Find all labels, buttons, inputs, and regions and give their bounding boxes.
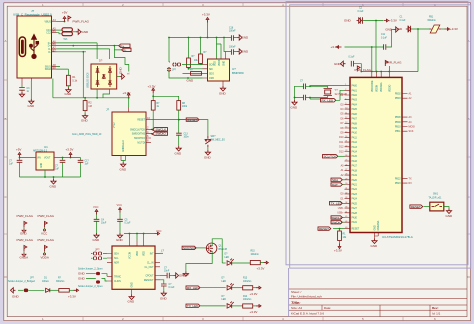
capacitor C8 1uF output 2 (80, 158, 82, 161)
svg-text:PA11: PA11 (352, 136, 358, 139)
label RX_LED (186, 286, 200, 289)
node (84, 97, 86, 99)
svg-text:B: B (5, 117, 7, 121)
svg-text:SCK/SCK: SCK/SCK (183, 246, 196, 250)
svg-text:25: 25 (345, 160, 347, 162)
svg-text:VCC: VCC (156, 229, 162, 233)
pin stubs left (203, 64, 224, 86)
svg-text:GND: GND (12, 295, 20, 299)
sensor U2 BMP280 (208, 59, 230, 81)
ground under C5 (117, 233, 122, 238)
svg-text:PA17: PA17 (352, 165, 358, 168)
svg-text:PA13: PA13 (352, 146, 358, 149)
svg-text:1uF: 1uF (85, 164, 90, 166)
svg-text:10: 10 (345, 108, 347, 110)
graphic rectangle (purple) around MCU section (286, 2, 468, 265)
svg-text:32: 32 (345, 193, 347, 195)
svg-text:PWR_FLAG: PWR_FLAG (38, 238, 55, 242)
svg-text:DAT: DAT (332, 183, 338, 187)
svg-text:2: 2 (345, 89, 346, 91)
wire USB GND pin down (30, 81, 32, 99)
ground flag left for C12 (341, 61, 346, 66)
node usb data (114, 45, 116, 47)
svg-text:Size: A4: Size: A4 (291, 306, 302, 310)
wire +3.3V branch to ESD rail (128, 97, 130, 99)
svg-text:D10: D10 (339, 136, 344, 139)
svg-text:U1: U1 (44, 145, 48, 149)
resistor R5 (188, 38, 190, 59)
wire VBUS (57, 21, 65, 23)
svg-text:R1: R1 (72, 75, 76, 79)
svg-text:GND: GND (50, 185, 58, 189)
svg-text:FB1: FB1 (429, 17, 434, 19)
wire VOUT rail (54, 157, 81, 159)
svg-text:SDA: SDA (114, 253, 119, 256)
svg-text:R15: R15 (251, 251, 256, 253)
svg-text:100ohm: 100ohm (243, 299, 251, 301)
svg-text:PWR_FLAG: PWR_FLAG (17, 214, 34, 218)
svg-text:SW?: SW? (211, 136, 217, 138)
svg-text:C13: C13 (184, 134, 189, 136)
ground under C4 (94, 233, 99, 238)
label SWDIO row29 (331, 221, 342, 224)
svg-text:CC2: CC2 (46, 33, 51, 35)
svg-text:600ohm: 600ohm (428, 20, 436, 22)
wire R1 to gnd (67, 86, 69, 88)
svg-text:LED: LED (222, 299, 227, 301)
svg-text:PA14: PA14 (352, 151, 358, 154)
pin numbers (147, 116, 150, 143)
svg-text:GND: GND (132, 282, 134, 287)
svg-text:R13: R13 (243, 278, 248, 280)
svg-text:PA06: PA06 (352, 113, 358, 116)
svg-text:PB11: PB11 (395, 131, 401, 133)
svg-text:PA16: PA16 (352, 160, 358, 163)
svg-text:PA07: PA07 (352, 118, 358, 121)
svg-text:100k: 100k (182, 106, 188, 108)
svg-text:TX: TX (409, 177, 412, 180)
svg-text:TX_LED: TX_LED (187, 304, 199, 308)
svg-text:VBUS: VBUS (45, 22, 52, 24)
svg-text:RESET: RESET (352, 229, 360, 231)
svg-text:TRINC: TRINC (114, 276, 121, 278)
ground under LDO (51, 179, 56, 184)
graphic rectangle (purple) inner offset (290, 5, 471, 268)
svg-text:D11: D11 (339, 141, 344, 144)
svg-text:SWDIO/TMS: SWDIO/TMS (132, 134, 146, 136)
svg-text:VCC: VCC (117, 203, 123, 207)
svg-text:GND: GND (187, 79, 195, 83)
ground right of array (117, 76, 120, 78)
ground crystal (292, 100, 297, 105)
power +3.3V right of C2 (384, 19, 389, 22)
mcu U3 body (350, 77, 402, 232)
svg-text:PA00: PA00 (352, 85, 358, 88)
ground under SW2 (205, 150, 210, 155)
svg-text:Solder-Jumper_2_Open: Solder-Jumper_2_Open (78, 285, 103, 288)
wire gnd rail (20, 170, 81, 179)
switch SW2 reset button (179, 120, 208, 136)
svg-text:GNDDetect: GNDDetect (122, 140, 125, 152)
svg-text:VDDANA: VDDANA (380, 82, 383, 92)
svg-text:31: 31 (345, 188, 347, 190)
svg-text:INT: INT (150, 253, 154, 255)
wire VDDCORE vertical (371, 47, 373, 72)
svg-text:RX_LED: RX_LED (322, 99, 335, 103)
svg-text:0.1uF: 0.1uF (381, 38, 387, 40)
svg-text:+3.3V: +3.3V (334, 249, 342, 253)
svg-text:1uF: 1uF (9, 164, 14, 166)
svg-text:TA_DIP_x01: TA_DIP_x01 (429, 197, 443, 200)
ground for USB GND pin (29, 99, 34, 104)
mcu left pin numbers (345, 84, 347, 229)
power VCC 2 (119, 208, 122, 213)
svg-text:GND: GND (160, 297, 168, 301)
power +3.3V below R1 (inverted) (338, 244, 341, 249)
svg-text:PB08: PB08 (395, 117, 401, 119)
svg-text:PWR_FLAG: PWR_FLAG (73, 20, 90, 24)
wire C2 junction down to rail (375, 21, 377, 72)
svg-text:+5V: +5V (62, 11, 67, 15)
capacitor C6 1uF input (19, 158, 21, 161)
rtc pin stubs (107, 241, 160, 295)
svg-text:LED: LED (222, 281, 227, 283)
capacitor C9 on CPOUT (160, 275, 167, 277)
svg-text:46: 46 (345, 221, 347, 223)
svg-text:Title:: Title: (291, 300, 301, 305)
pin stubs right (22, 22, 57, 87)
solder jumper JP (SDO select) (173, 63, 176, 66)
ground under BMP280 (220, 86, 225, 91)
svg-text:GND: GND (81, 119, 89, 123)
svg-text:PA03: PA03 (352, 99, 358, 102)
svg-text:U3 ATSAMD21G17B-A: U3 ATSAMD21G17B-A (382, 235, 413, 239)
resistor R1 (67, 75, 71, 86)
mcu top pin names vertical (372, 80, 392, 92)
power +3.3V for VTref (127, 93, 130, 98)
power +5V (63, 17, 66, 22)
label USB_D+ (119, 44, 130, 47)
node D- (82, 51, 84, 53)
svg-text:J?: J? (106, 108, 110, 112)
svg-text:PA21: PA21 (352, 184, 358, 187)
label SCL/SCK row15 (323, 155, 338, 158)
svg-text:0.1uF: 0.1uF (169, 287, 175, 289)
svg-text:PA12: PA12 (352, 141, 358, 144)
wire CC2 to jumper bottom (57, 33, 63, 34)
capacitor C4 10uF (94, 219, 100, 221)
power flag PWR_FLAG top 2 (385, 61, 388, 67)
solder jumper vertical (CSB select) (167, 68, 170, 71)
svg-text:SWDIO: SWDIO (332, 221, 343, 225)
title block (289, 289, 467, 317)
svg-text:PA22: PA22 (352, 188, 358, 191)
wire rail to caps (217, 38, 229, 60)
ESD diode array D2 USBLC6 (91, 64, 117, 89)
ground Q1 (183, 271, 188, 276)
svg-text:VDDCORE: VDDCORE (372, 80, 374, 92)
title block left edge line (288, 268, 290, 317)
mcu left pin names (352, 85, 360, 231)
svg-text:14: 14 (345, 127, 347, 129)
svg-text:12: 12 (345, 117, 347, 119)
svg-text:+3.3V: +3.3V (68, 295, 76, 299)
label RESET (186, 118, 199, 121)
svg-text:GND: GND (371, 244, 379, 248)
ground under SWD (121, 161, 126, 163)
svg-text:VCC: VCC (41, 232, 48, 236)
svg-text:SWDCLK/TCK: SWDCLK/TCK (130, 129, 146, 131)
svg-text:D13: D13 (339, 150, 344, 153)
resistor R1 reset pullup (339, 229, 341, 231)
svg-text:VTref: VTref (113, 122, 116, 128)
wire SW1 to gnd (444, 207, 449, 209)
crystal Y1 32.768kHz (324, 89, 333, 96)
svg-text:Rev:: Rev: (432, 306, 439, 310)
svg-text:+3.3V: +3.3V (250, 310, 258, 314)
svg-text:100ohm: 100ohm (243, 281, 251, 283)
wire from FB down to rail (417, 29, 419, 72)
svg-text:RX_LED: RX_LED (187, 286, 200, 290)
svg-text:39: 39 (345, 207, 347, 209)
svg-text:PA23: PA23 (352, 193, 358, 196)
wires D+ D- from USB (57, 43, 110, 52)
label USB_D- (122, 48, 131, 51)
label SWCLK (151, 128, 168, 131)
resistor R8 pullup (177, 101, 181, 111)
svg-text:+3.3V: +3.3V (148, 85, 156, 89)
svg-text:PB02: PB02 (395, 94, 401, 96)
mcu right pin names (395, 94, 401, 186)
svg-text:VDDIO: VDDIO (219, 59, 221, 66)
ground under C10 (161, 291, 166, 296)
svg-text:Y?: Y? (335, 88, 339, 92)
svg-text:100uA: 100uA (42, 280, 49, 283)
svg-text:100ohm: 100ohm (251, 254, 259, 256)
svg-text:SCL: SCL (114, 258, 119, 260)
svg-text:+3.3V: +3.3V (202, 13, 210, 17)
svg-text:0.1uF: 0.1uF (125, 223, 131, 225)
ground flag right for C11 (394, 27, 399, 32)
svg-text:Solder-Jumper_2_Open: Solder-Jumper_2_Open (78, 268, 103, 271)
svg-text:SBU2: SBU2 (45, 69, 52, 71)
svg-text:5V1: 5V1 (64, 39, 69, 41)
svg-text:SCK: SCK (209, 64, 214, 66)
USB-C connector oval glyph (19, 37, 25, 57)
capacitor C3 (21, 86, 23, 87)
svg-text:SWO/TDO: SWO/TDO (134, 138, 145, 140)
ground under R2 (83, 114, 88, 119)
svg-text:PA25: PA25 (352, 202, 358, 205)
svg-text:SW_MEC_5G: SW_MEC_5G (211, 140, 226, 142)
svg-text:GND: GND (219, 92, 227, 96)
svg-text:GND: GND (334, 62, 342, 66)
svg-text:D-: D- (48, 49, 51, 51)
svg-text:MOSI: MOSI (409, 126, 415, 129)
svg-text:PA04: PA04 (352, 103, 358, 106)
svg-text:41: 41 (345, 211, 347, 213)
svg-text:SW1: SW1 (433, 194, 439, 196)
svg-text:GNDANA: GNDANA (377, 220, 380, 230)
svg-text:0.1uF: 0.1uF (358, 11, 364, 13)
svg-text:9: 9 (345, 103, 346, 105)
svg-text:PB09: PB09 (395, 122, 401, 124)
label SDA row20 (331, 178, 342, 181)
label SCK/SCK (182, 246, 196, 249)
svg-text:+3.3V: +3.3V (450, 27, 458, 31)
wire +5V rail to VIN (20, 157, 37, 159)
svg-text:CLKIN: CLKIN (114, 281, 121, 283)
wire source to gnd (186, 252, 212, 271)
svg-text:PA15: PA15 (352, 155, 358, 158)
connector J2 Conn_ARM_JTAG_SWD_10 (112, 112, 146, 156)
svg-text:USBLC6-2SC6: USBLC6-2SC6 (88, 72, 90, 88)
svg-text:D12: D12 (339, 146, 344, 149)
ferrite bead FB1 (429, 28, 441, 30)
svg-text:30: 30 (345, 183, 347, 185)
power +3.3V row3 (256, 305, 261, 308)
pin numbers (53, 18, 57, 70)
rtc U4 body (112, 246, 155, 289)
svg-text:CSB: CSB (209, 78, 214, 80)
svg-text:VDD: VDD (144, 251, 146, 256)
svg-text:+3.3V: +3.3V (389, 19, 397, 23)
svg-text:USB-: USB- (338, 207, 344, 210)
label RESET (mcu) (318, 227, 331, 230)
wire D pair continuing right (73, 43, 119, 59)
svg-text:R14: R14 (243, 296, 248, 298)
mcu right net labels (409, 93, 415, 186)
svg-text:5.1k: 5.1k (72, 78, 78, 82)
svg-text:Solder-Jumper_2_Bridged: Solder-Jumper_2_Bridged (8, 280, 36, 283)
capacitor C13 100n on reset (176, 133, 182, 135)
ground under MCU (372, 239, 377, 244)
regulator U1 AP7512 (36, 152, 54, 170)
wire R5 to SDI pin (189, 68, 203, 69)
svg-text:27: 27 (345, 169, 347, 171)
wire CSB row (169, 75, 203, 78)
label TX_LED (186, 304, 200, 307)
power flag PWR_FLAG (68, 16, 71, 22)
transistor Q1 BSS138 (197, 247, 207, 249)
svg-text:Conn_ARM_JTAG_SWD_10: Conn_ARM_JTAG_SWD_10 (72, 133, 102, 136)
svg-text:10nF: 10nF (164, 271, 170, 273)
wire RESET to MCU (333, 228, 345, 230)
svg-text:Date:: Date: (324, 306, 331, 310)
label SWDIO (151, 132, 168, 135)
capacitor C10 on RESOUT (160, 280, 164, 284)
power +3.3V row2 (256, 286, 261, 289)
svg-text:+3.3V: +3.3V (66, 148, 74, 152)
svg-text:CPOUT: CPOUT (145, 276, 154, 278)
svg-text:RESET: RESET (411, 205, 421, 209)
svg-text:SBU1: SBU1 (45, 66, 52, 68)
USB trident logo (30, 35, 39, 59)
svg-text:34: 34 (345, 202, 347, 204)
svg-text:4: 4 (345, 98, 346, 100)
svg-text:SDO: SDO (209, 73, 214, 75)
svg-text:C1?: C1? (85, 161, 90, 163)
resistor R6 (200, 38, 202, 55)
svg-text:JP?: JP? (95, 248, 100, 252)
wire usb data down-route (114, 46, 128, 72)
resistor R2 (84, 98, 86, 101)
bottom pins SHIELD / GND (22, 78, 31, 86)
svg-text:23: 23 (345, 150, 347, 152)
svg-text:+3.3V: +3.3V (123, 91, 131, 95)
svg-text:33: 33 (345, 197, 347, 199)
svg-text:CL_IN: CL_IN (147, 262, 154, 264)
mcu left pin stubs (345, 86, 351, 229)
svg-text:PA09: PA09 (352, 127, 358, 130)
solder jumper JP3 bridged (18, 289, 23, 291)
svg-text:13: 13 (345, 122, 347, 124)
node D+ (72, 45, 74, 47)
svg-text:GND: GND (375, 225, 377, 230)
pin names inside (130, 120, 146, 145)
svg-text:C16: C16 (229, 28, 234, 30)
svg-text:+3.3V: +3.3V (250, 292, 258, 296)
svg-text:CL_OUT: CL_OUT (144, 267, 154, 269)
svg-text:VDDIN: VDDIN (377, 85, 379, 92)
svg-text:USB+: USB+ (337, 212, 344, 215)
power +3.3V row1 (263, 261, 268, 264)
svg-text:GND: GND (224, 61, 226, 66)
ground under RTC (129, 295, 134, 300)
connector J1 USB_C_Receptacle_USB2.0 (17, 16, 52, 78)
power +3.3V right (74, 289, 79, 292)
wire shield riser (52, 79, 54, 98)
label RESET (sw1) (410, 205, 423, 208)
svg-text:GND: GND (28, 104, 36, 108)
svg-text:11: 11 (345, 113, 347, 115)
svg-text:+3.3V: +3.3V (257, 267, 265, 271)
capacitor C7 1uF output (62, 158, 64, 161)
svg-text:3: 3 (345, 94, 346, 96)
svg-text:PA18: PA18 (352, 169, 358, 172)
svg-text:PA19: PA19 (352, 174, 358, 177)
svg-text:PA08: PA08 (352, 122, 358, 125)
svg-text:SWDIO: SWDIO (156, 132, 167, 136)
svg-text:GNDA: GNDA (20, 256, 29, 260)
svg-text:RESOUT: RESOUT (144, 280, 154, 282)
svg-text:22: 22 (345, 145, 347, 147)
node VBUS junction (64, 21, 66, 23)
resistor R16 (59, 289, 70, 293)
svg-text:GND: GND (128, 300, 136, 304)
svg-text:PA28: PA28 (352, 212, 358, 215)
power +3.3V at LDO output (69, 153, 72, 158)
svg-text:BSS138: BSS138 (219, 249, 228, 251)
svg-text:GND: GND (119, 67, 123, 75)
wire top rail (361, 71, 418, 73)
svg-text:VDDA: VDDA (41, 256, 49, 260)
wire top rail (169, 37, 224, 39)
svg-text:PB03: PB03 (395, 98, 401, 100)
svg-text:GND: GND (41, 163, 43, 168)
ground flag right of fuse (72, 31, 76, 33)
svg-text:GND: GND (396, 27, 404, 31)
svg-text:0.1uF: 0.1uF (349, 57, 355, 59)
svg-text:D-: D- (48, 52, 51, 54)
svg-text:GND: GND (120, 168, 128, 172)
label DATA row21 (331, 183, 342, 186)
svg-text:26: 26 (345, 164, 347, 166)
svg-text:PA02: PA02 (352, 94, 358, 97)
svg-text:NC/TDI: NC/TDI (137, 142, 145, 144)
svg-text:28: 28 (345, 174, 347, 176)
svg-text:SCK: SCK (409, 130, 414, 133)
